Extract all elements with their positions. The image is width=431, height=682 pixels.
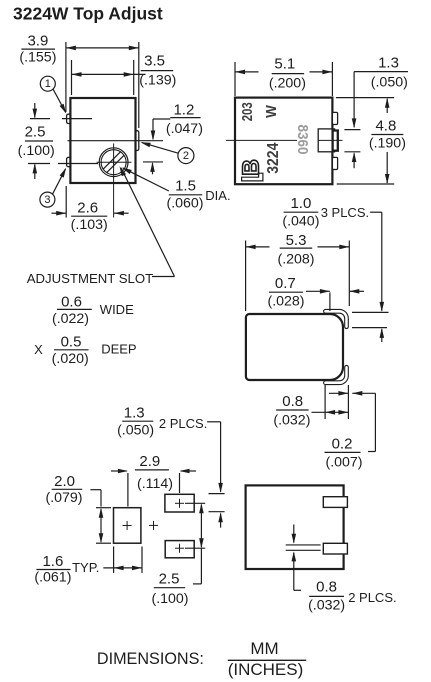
dim 4.8 extension line bottom (337, 183, 395, 185)
svg-text:0.5: 0.5 (61, 333, 82, 350)
view1 body (70, 98, 135, 183)
svg-text:1.6: 1.6 (42, 553, 63, 570)
pad right bottom cross (175, 547, 184, 549)
svg-text:WIDE: WIDE (100, 302, 134, 317)
dim 2.6 line left part (52, 212, 67, 214)
view3 J-hook pin bottom (324, 365, 349, 384)
view1 rotor circle outer (99, 148, 128, 177)
dim 2.5 line (200, 505, 202, 548)
svg-text:2.5: 2.5 (159, 571, 180, 588)
svg-text:3.5: 3.5 (144, 52, 165, 69)
svg-text:5.1: 5.1 (274, 56, 295, 73)
svg-text:1.5: 1.5 (175, 178, 196, 195)
dim 1.3 arrow bottom (353, 153, 355, 168)
svg-text:(.022): (.022) (52, 311, 89, 327)
dim 2.0 bracket (90, 489, 101, 491)
svg-text:TYP.: TYP. (72, 560, 99, 575)
dim 1.6 extension lines (113, 547, 115, 573)
dim 1.6 line (103, 567, 142, 569)
svg-text:W: W (263, 105, 280, 118)
view2 body (235, 98, 332, 185)
dim 1.3 pads arrow bottom (220, 514, 222, 528)
svg-text:4.8: 4.8 (375, 118, 396, 135)
svg-text:0.8: 0.8 (282, 393, 303, 410)
dim 1.3 tick top (344, 129, 360, 131)
dim 1.0 tick bottom (352, 327, 387, 329)
dim 0.2 line right (352, 392, 375, 394)
dim 5.3 extension line left (245, 241, 247, 312)
svg-text:0.7: 0.7 (275, 275, 296, 292)
svg-text:0.2: 0.2 (332, 436, 353, 453)
svg-text:(.032): (.032) (273, 413, 310, 429)
svg-text:(.200): (.200) (269, 75, 306, 91)
dim 5.1 extension line left (234, 62, 236, 96)
dim 0.7 extension line (329, 293, 331, 312)
svg-text:(.028): (.028) (267, 294, 304, 310)
view2 Bourns logo (242, 173, 263, 181)
svg-text:1.2: 1.2 (173, 102, 194, 119)
dim 5.3 extension line right (348, 241, 350, 307)
view1 pin3 centerline (28, 163, 50, 165)
svg-text:X: X (34, 342, 43, 357)
view2 pin 2 (right middle) (333, 131, 338, 151)
dim 3.9 line (66, 47, 139, 49)
dim 3.5 line (72, 73, 146, 75)
dim 1.3 tick bottom (344, 151, 360, 153)
svg-text:(.032): (.032) (308, 598, 345, 614)
dim 5.1 line (235, 71, 259, 73)
svg-text:(.100): (.100) (151, 591, 188, 607)
svg-text:(.050): (.050) (117, 423, 154, 439)
view1 rotor vertical centerline (113, 144, 115, 218)
dim 2.5 extension line top (185, 502, 205, 504)
view1 pin1 centerline (30, 118, 50, 120)
dim 2.5 extension line bottom (185, 547, 205, 549)
svg-text:203: 203 (238, 102, 255, 121)
view1 pin 1 tab (left top) (67, 114, 71, 123)
dim 4.8 extension line top (336, 97, 394, 99)
dim 3.5 extension line right (133, 60, 135, 95)
svg-text:(.139): (.139) (139, 72, 176, 88)
svg-text:1.0: 1.0 (290, 195, 311, 212)
svg-text:(.047): (.047) (166, 121, 203, 137)
svg-text:1.3: 1.3 (378, 54, 399, 71)
view1 tick right of body at rotor level (143, 161, 163, 163)
view4 pin top (323, 497, 347, 508)
dim 2.5 arrow top (34, 103, 36, 118)
balloon 1 (40, 76, 55, 91)
dim 2.9 extension line left (127, 473, 129, 507)
svg-text:3 PLCS.: 3 PLCS. (321, 205, 369, 220)
pad right top (165, 494, 194, 512)
svg-text:3.9: 3.9 (27, 32, 48, 49)
balloon 2 (178, 148, 194, 164)
dim 2.6 line right part (114, 212, 129, 214)
dim 5.3 line (246, 246, 270, 248)
dim 2.6 extension line left (65, 186, 67, 218)
dim 4.8 line (386, 99, 388, 113)
pads center cross (149, 524, 158, 526)
dim 1.3 bracket (354, 71, 371, 73)
svg-text:MM: MM (250, 639, 278, 658)
view2 pin 3 (right bottom) (332, 157, 337, 169)
svg-text:DEEP: DEEP (101, 342, 136, 357)
dim 2.5 bracket (200, 548, 202, 584)
svg-text:B: B (238, 159, 264, 176)
dim 1.2 bracket (153, 118, 170, 120)
svg-text:(.079): (.079) (45, 490, 82, 506)
view1 rotor horizontal centerline (97, 161, 132, 163)
view1 rotor center cross (111, 161, 117, 163)
view4 rotor slot lines (286, 544, 321, 546)
dim 2.5 arrow bottom (34, 165, 36, 180)
dim 0.8 view4 arrow bottom + leader (293, 553, 295, 591)
svg-text:3224: 3224 (266, 142, 283, 174)
dim 1.3 pads tick top (209, 493, 225, 495)
svg-text:(.050): (.050) (371, 74, 408, 90)
view1 body centerline (68, 140, 164, 142)
svg-text:DIA.: DIA. (205, 188, 230, 203)
svg-text:(INCHES): (INCHES) (228, 660, 304, 679)
dim 0.7 line left (306, 290, 330, 292)
dim 2.0 arrows (100, 509, 102, 542)
svg-text:(.061): (.061) (34, 569, 71, 585)
svg-text:DIMENSIONS:: DIMENSIONS: (97, 650, 204, 668)
dim 2.9 arrows (111, 470, 127, 472)
svg-text:3224W Top Adjust: 3224W Top Adjust (13, 4, 163, 24)
pad right top cross (175, 502, 184, 504)
view2 pin 1 (right top) (332, 112, 337, 124)
view4 body (246, 485, 344, 569)
svg-text:1: 1 (45, 78, 51, 90)
pad right bottom (165, 541, 194, 558)
dim 0.2 bracket (374, 393, 376, 451)
dim 0.8 view4 arrow top (293, 525, 295, 543)
svg-text:2.9: 2.9 (139, 453, 160, 470)
svg-text:2.0: 2.0 (54, 473, 75, 490)
svg-text:(.208): (.208) (277, 252, 314, 268)
svg-text:0.8: 0.8 (316, 578, 337, 595)
view1 pin 2 tab (right) (136, 131, 139, 151)
svg-text:(.190): (.190) (369, 136, 406, 152)
svg-text:(.060): (.060) (166, 196, 203, 212)
dim 1.3 pads tick bottom (209, 511, 225, 513)
adjustment slot leader (152, 276, 175, 278)
svg-text:0.6: 0.6 (61, 293, 82, 310)
dim 0.7 line right (349, 290, 364, 292)
view3 J-hook pin top (324, 309, 349, 328)
view1 adjustment slot line upper (103, 152, 121, 170)
pad left center cross (123, 525, 132, 527)
dim 3.9 extension line right (138, 42, 140, 128)
dim 1.5 leader (123, 168, 169, 191)
svg-text:(.007): (.007) (325, 455, 362, 471)
dim 1.3 pads leader (207, 421, 221, 423)
dim 0.8 extension line right (347, 385, 349, 419)
view1 pin 3 tab (left bottom) (67, 157, 71, 166)
svg-text:2.6: 2.6 (77, 199, 98, 216)
dim 1.0 arrow bottom (381, 329, 383, 342)
view1 rotor circle inner (101, 150, 126, 175)
svg-text:(.155): (.155) (19, 49, 56, 65)
dim 3.9 extension line left (65, 42, 67, 112)
svg-text:2.5: 2.5 (25, 124, 46, 141)
svg-text:1.3: 1.3 (124, 404, 145, 421)
svg-text:(.020): (.020) (52, 351, 89, 367)
dim 0.2 line left (329, 392, 348, 394)
dim 3.5 extension line left (71, 60, 73, 95)
view1 adjustment slot line lower (107, 155, 125, 173)
dim 1.2 arrow bottom (152, 163, 154, 174)
svg-text:8360: 8360 (294, 124, 311, 154)
pad left (114, 508, 141, 544)
dim 1.0 leader (370, 211, 382, 213)
view3 body (246, 314, 343, 380)
balloon 3 (40, 192, 55, 207)
svg-text:5.3: 5.3 (286, 232, 307, 249)
view2 rotor contact box (318, 129, 334, 152)
svg-text:2: 2 (183, 150, 189, 162)
dim 1.0 tick top (352, 311, 389, 313)
dim 2.9 extension line right (179, 473, 181, 493)
svg-text:ADJUSTMENT SLOT: ADJUSTMENT SLOT (27, 271, 154, 286)
svg-text:3: 3 (44, 194, 50, 206)
dim 2.0 ticks (96, 507, 111, 509)
svg-text:(.040): (.040) (282, 213, 319, 229)
view4 pin bottom (323, 543, 347, 554)
view2 centerline (226, 139, 297, 141)
svg-text:(.100): (.100) (18, 143, 55, 159)
dim 0.8 extension line left (324, 385, 326, 419)
svg-text:(.103): (.103) (71, 217, 108, 233)
dim 0.8 line (312, 411, 349, 413)
svg-text:2 PLCS.: 2 PLCS. (159, 416, 207, 431)
svg-text:(.114): (.114) (137, 476, 173, 492)
svg-text:2 PLCS.: 2 PLCS. (348, 590, 396, 605)
dim 5.1 extension line right (331, 62, 333, 96)
